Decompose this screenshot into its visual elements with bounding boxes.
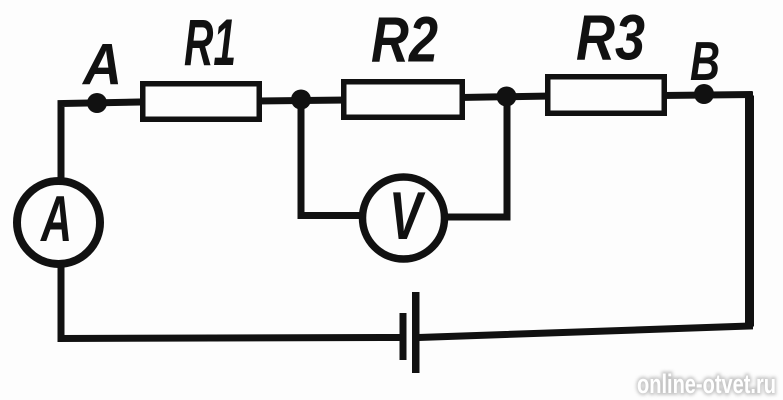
svg-text:A: A (81, 33, 122, 98)
svg-text:B: B (690, 30, 720, 92)
svg-text:R3: R3 (576, 2, 645, 74)
svg-text:A: A (40, 182, 72, 255)
svg-text:V: V (389, 178, 426, 254)
svg-text:R1: R1 (184, 5, 236, 79)
svg-text:R2: R2 (371, 4, 438, 76)
svg-text:online-otvet.ru: online-otvet.ru (637, 369, 776, 399)
